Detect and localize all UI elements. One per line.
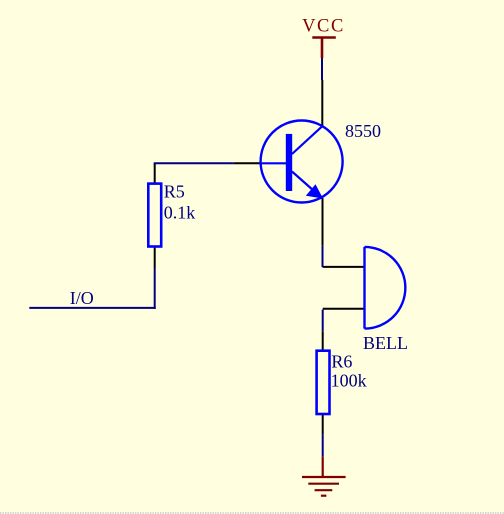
transistor 8550 base pin xyxy=(233,162,261,164)
svg-text:VCC: VCC xyxy=(302,17,345,37)
buzzer BELL pin 2 xyxy=(323,308,365,310)
resistor R5 pin 1 xyxy=(154,163,156,183)
buzzer BELL body xyxy=(365,247,406,329)
transistor 8550 (PNP) body xyxy=(259,121,343,203)
resistor R6 pin 2 xyxy=(322,414,324,435)
resistor R6 body xyxy=(317,351,330,414)
wire emitter to bell xyxy=(322,245,324,267)
svg-text:100k: 100k xyxy=(331,371,367,391)
svg-text:R5: R5 xyxy=(164,182,185,202)
wire R5 down vertical xyxy=(154,268,156,309)
ground xyxy=(302,457,346,496)
svg-text:R6: R6 xyxy=(331,352,352,372)
resistor R6 pin 1 xyxy=(322,331,324,350)
wire R6 to ground xyxy=(322,435,324,457)
svg-text:BELL: BELL xyxy=(363,333,408,353)
svg-text:0.1k: 0.1k xyxy=(164,203,196,223)
wire base horizontal xyxy=(154,162,234,164)
transistor 8550 emitter pin xyxy=(322,198,324,245)
resistor R5 body xyxy=(148,184,161,247)
power port VCC xyxy=(302,17,345,59)
wire VCC to collector pin xyxy=(321,58,323,80)
svg-text:I/O: I/O xyxy=(70,288,94,308)
svg-text:8550: 8550 xyxy=(345,121,381,141)
wire bell to R6 xyxy=(322,310,324,332)
buzzer BELL pin 1 xyxy=(323,266,365,268)
resistor R5 pin 2 xyxy=(154,247,156,269)
transistor 8550 collector pin xyxy=(321,80,323,126)
wire I/O horizontal xyxy=(29,307,155,309)
